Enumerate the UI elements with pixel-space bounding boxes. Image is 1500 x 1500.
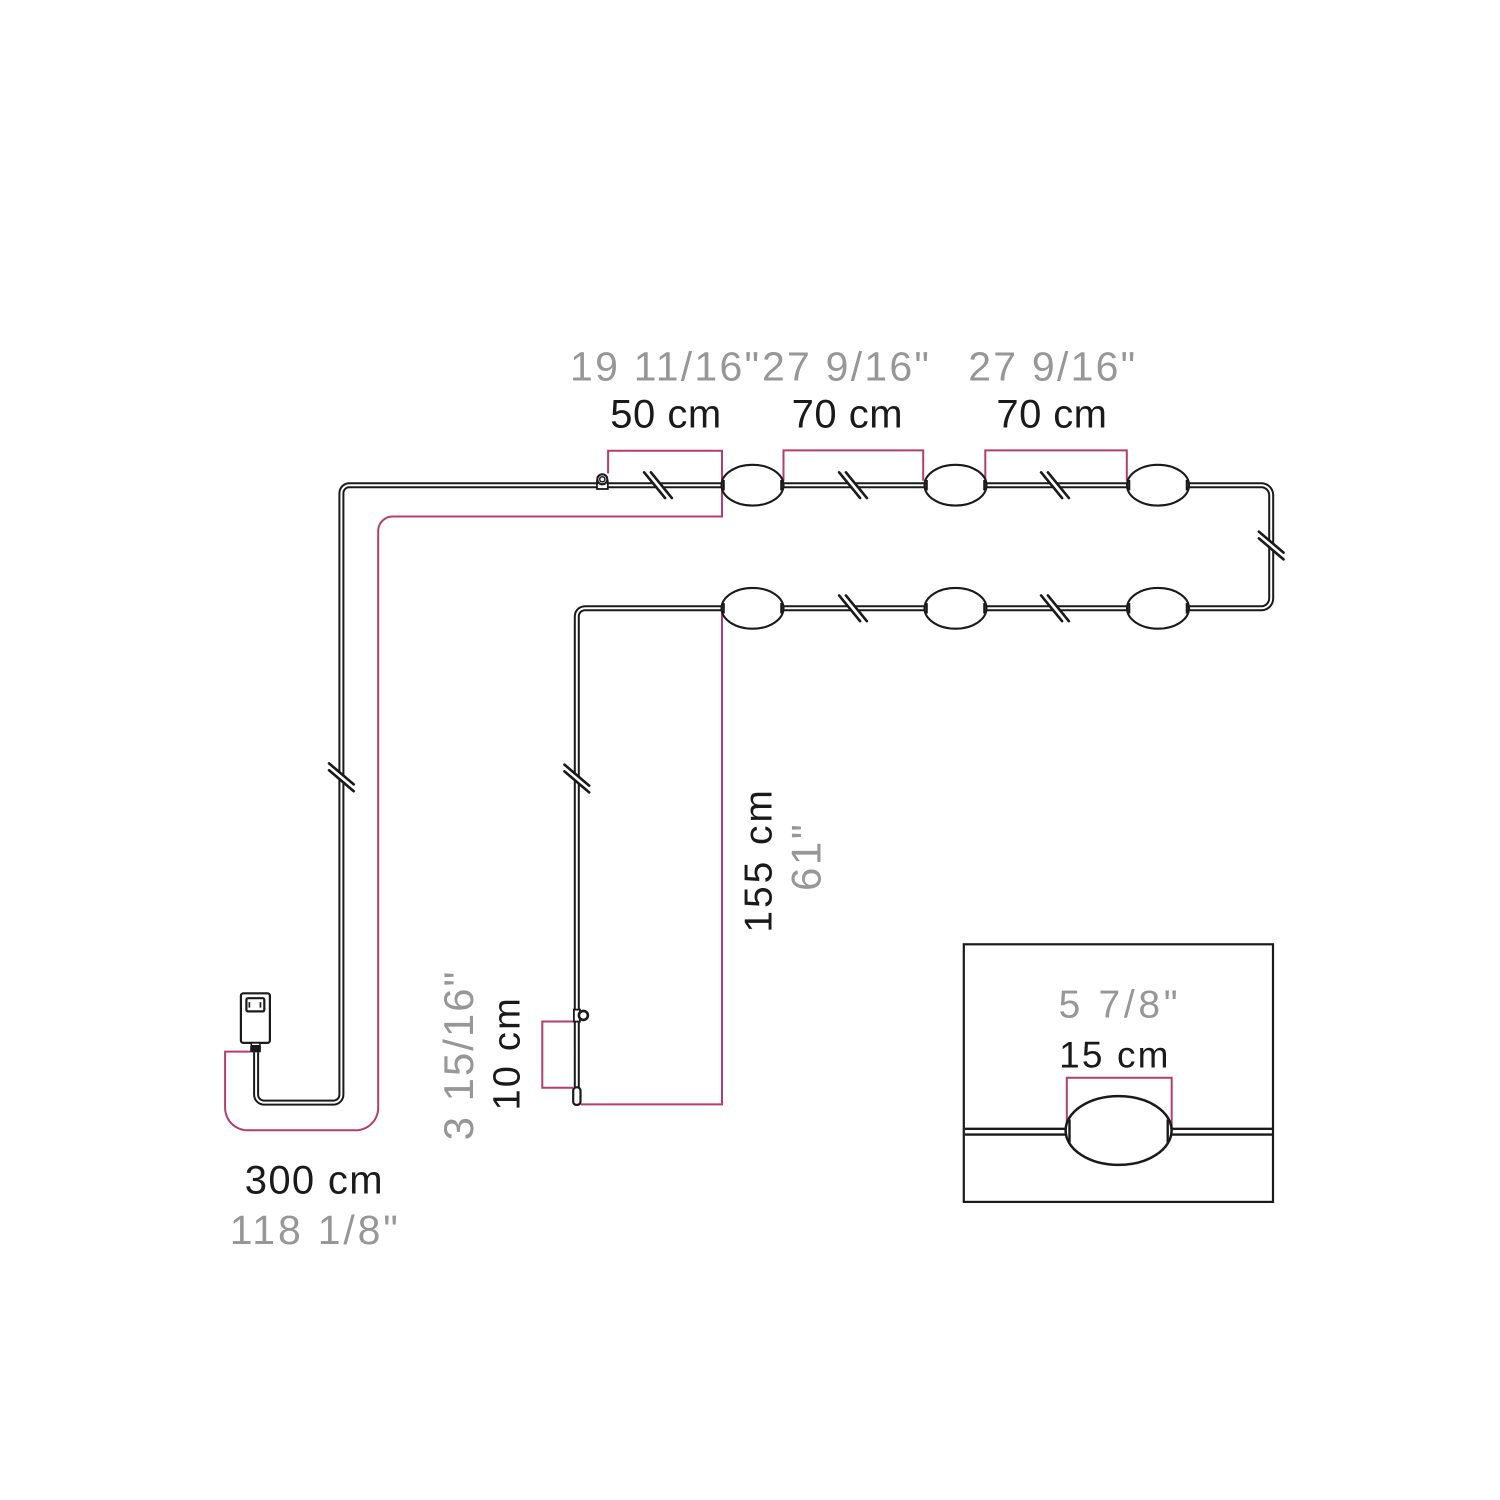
dimension line 300 cm / 118 1/8 in + 50 cm box: [225, 451, 722, 1131]
break symbol lower wire 2: [1041, 593, 1069, 623]
break symbol left vertical wire: [327, 763, 357, 791]
svg-text:27 9/16": 27 9/16": [762, 344, 931, 390]
svg-text:118 1/8": 118 1/8": [230, 1207, 401, 1253]
break symbol top wire 2: [839, 470, 867, 500]
detail wire lower line: [965, 1133, 1272, 1135]
svg-text:70 cm: 70 cm: [792, 393, 903, 437]
break symbol top wire 1: [644, 470, 672, 500]
dimension box 70 cm (first): [784, 450, 924, 480]
detail wire upper line: [965, 1128, 1272, 1130]
svg-text:10 cm: 10 cm: [487, 996, 529, 1110]
lamp at 955.5,485.2: [925, 465, 987, 506]
dimension line 155 cm / 61 in: [581, 613, 722, 1104]
svg-text:155 cm: 155 cm: [738, 787, 781, 932]
svg-text:50 cm: 50 cm: [610, 393, 721, 437]
detail inset box: [964, 944, 1273, 1202]
cable end tip: [573, 1087, 580, 1105]
svg-text:5 7/8": 5 7/8": [1059, 983, 1182, 1026]
svg-text:70 cm: 70 cm: [996, 393, 1107, 437]
plug prong slot left: [249, 1002, 251, 1007]
break symbol right vertical wire: [1256, 532, 1286, 560]
svg-text:300 cm: 300 cm: [245, 1159, 384, 1203]
plug cable collar: [250, 1046, 261, 1053]
hanging eyelet on drop wire: [574, 1010, 580, 1022]
hanging eyelet on top wire: [597, 481, 608, 489]
lamp at 752.5,485.2: [722, 465, 784, 506]
wire cable run (double line): [254, 487, 1269, 1104]
plug prong slot right: [260, 1002, 262, 1007]
dimension box 70 cm (second): [985, 450, 1127, 480]
break symbol top wire 3: [1041, 470, 1069, 500]
lamp at 752.5,608.3: [722, 588, 784, 629]
svg-text:15 cm: 15 cm: [1059, 1034, 1170, 1075]
lamp at 1158,485.2: [1127, 465, 1189, 506]
svg-text:27 9/16": 27 9/16": [968, 344, 1137, 390]
detail lamp bulb: [1066, 1096, 1172, 1165]
plug neck: [251, 1043, 260, 1046]
plug socket face: [246, 998, 264, 1011]
power plug body: [241, 993, 270, 1043]
dimension bracket 10 cm / 3 15/16 in: [542, 1022, 574, 1088]
break symbol lower wire 1: [839, 593, 867, 623]
lamp at 1158,608.3: [1127, 588, 1189, 629]
detail dimension bracket 15 cm: [1067, 1078, 1172, 1128]
break symbol middle vertical wire: [562, 765, 592, 793]
svg-text:3 15/16": 3 15/16": [435, 970, 482, 1141]
svg-text:61": 61": [783, 822, 830, 891]
svg-text:19 11/16": 19 11/16": [570, 344, 761, 390]
lamp at 955.5,608.3: [925, 588, 987, 629]
